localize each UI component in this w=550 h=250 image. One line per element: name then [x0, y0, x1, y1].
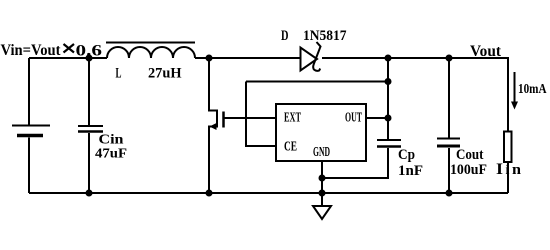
junction bottom Cout	[446, 190, 453, 197]
svg-text:EXT: EXT	[284, 111, 301, 126]
label Iin	[496, 161, 522, 178]
wire top rail left	[29, 57, 107, 59]
svg-text:47uF: 47uF	[95, 147, 127, 162]
svg-text:I: I	[496, 161, 503, 178]
svg-text:1N5817: 1N5817	[303, 28, 347, 44]
svg-text:10mA: 10mA	[518, 82, 547, 97]
wire GND pin	[321, 161, 323, 193]
transistor Q1 MOSFET	[209, 58, 246, 193]
wire gate to EXT	[246, 117, 276, 119]
wire CE net riser	[246, 82, 276, 147]
svg-text:OUT: OUT	[345, 111, 362, 126]
wire branch x388	[387, 58, 389, 139]
junction CE feed	[385, 78, 392, 85]
svg-text:L: L	[116, 66, 122, 82]
junction Cin top	[86, 55, 93, 62]
svg-text:Cout: Cout	[456, 147, 484, 163]
wire CE feed	[246, 81, 388, 83]
wire top rail right	[322, 58, 508, 132]
junction diode branch	[385, 55, 392, 62]
svg-text:Cp: Cp	[398, 147, 415, 163]
current arrow 10mA	[511, 72, 518, 110]
diode D	[301, 42, 321, 71]
svg-text:27uH: 27uH	[148, 66, 182, 82]
wire top rail middle	[195, 57, 301, 59]
svg-text:GND: GND	[313, 145, 330, 160]
svg-text:CE: CE	[284, 140, 297, 155]
op-amp U1 (IC box)	[276, 104, 366, 161]
capacitor Cout	[437, 58, 460, 193]
resistor load	[504, 132, 512, 194]
inductor L	[106, 43, 195, 59]
junction GND node	[319, 175, 326, 182]
wire bottom rail	[29, 192, 508, 194]
wire OUT pin	[366, 117, 388, 119]
capacitor Cin	[78, 58, 103, 193]
svg-text:1nF: 1nF	[398, 163, 423, 179]
svg-text:i: i	[506, 163, 510, 178]
junction bottom GND	[319, 190, 326, 197]
svg-text:100uF: 100uF	[450, 162, 487, 178]
label multiply sign	[64, 44, 75, 53]
ground	[313, 193, 331, 219]
battery B1	[12, 58, 50, 193]
junction inductor/drain	[206, 55, 213, 62]
svg-text:D: D	[281, 28, 289, 44]
junction Cout top	[446, 55, 453, 62]
junction bottom Cin	[86, 190, 93, 197]
capacitor Cp	[322, 140, 401, 178]
svg-text:Cin: Cin	[99, 133, 124, 148]
junction bottom source	[206, 190, 213, 197]
svg-text:Vin=Vout: Vin=Vout	[1, 42, 62, 59]
svg-text:Vout: Vout	[470, 43, 502, 60]
junction OUT	[385, 115, 392, 122]
svg-text:n: n	[512, 162, 522, 178]
